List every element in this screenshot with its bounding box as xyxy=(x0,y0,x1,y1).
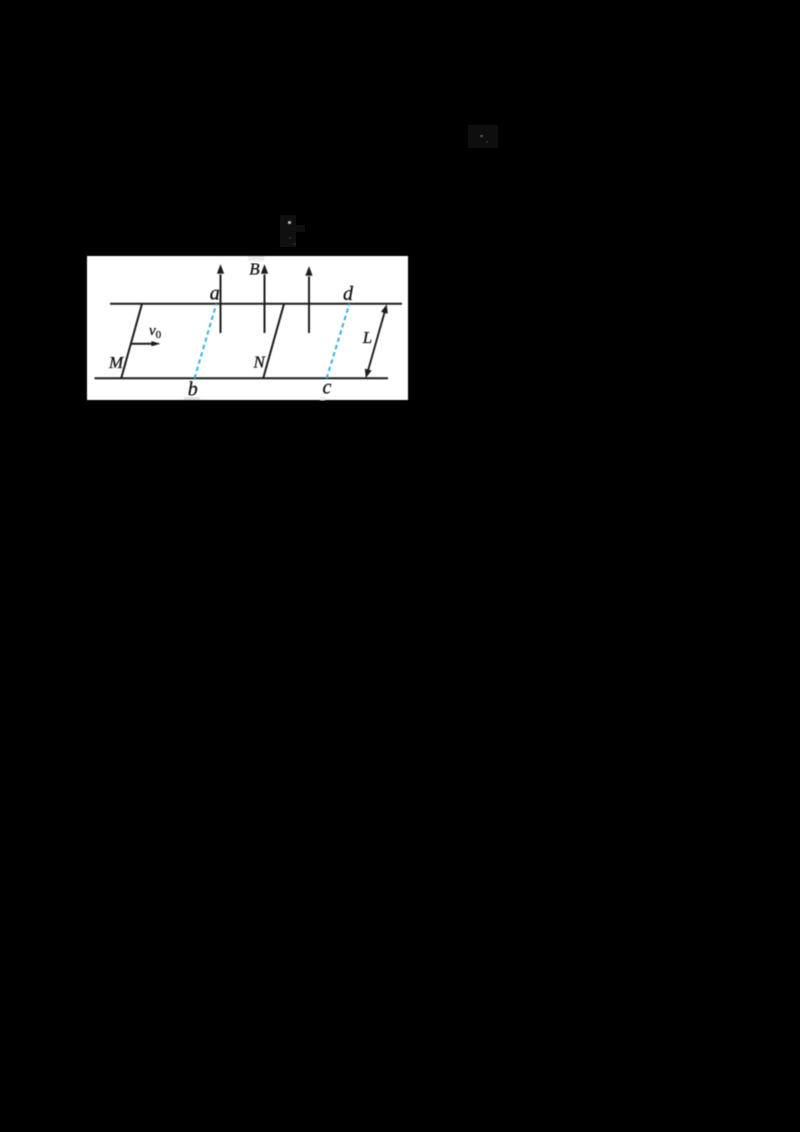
rod M xyxy=(121,303,142,378)
L dimension double arrow xyxy=(365,304,387,377)
dashed line c-d xyxy=(327,303,350,378)
svg-text:v0: v0 xyxy=(149,323,162,341)
svg-text:N: N xyxy=(253,352,267,371)
bottom rail xyxy=(95,377,389,379)
B field arrow 3 xyxy=(306,266,313,332)
svg-text:B: B xyxy=(249,259,260,278)
gray artifact above B label xyxy=(248,256,265,261)
svg-text:d: d xyxy=(343,283,354,305)
figure: sloped rails with rods M,N in magnetic field B xyxy=(87,256,408,401)
rod N xyxy=(263,303,284,378)
gray artifact below b label xyxy=(184,397,200,400)
B field arrow 2 xyxy=(261,264,268,332)
B field arrow 1 xyxy=(217,264,224,332)
svg-text:L: L xyxy=(362,328,372,347)
faint artifact block right area xyxy=(468,125,498,148)
svg-text:a: a xyxy=(210,282,220,304)
svg-text:c: c xyxy=(323,376,332,398)
dashed line a-b xyxy=(195,303,217,378)
svg-text:M: M xyxy=(108,353,124,372)
svg-text:b: b xyxy=(188,378,198,400)
top rail xyxy=(110,302,402,304)
gray artifact below c label xyxy=(320,397,325,401)
faint artifact block upper area xyxy=(280,215,296,247)
v0 velocity arrow xyxy=(131,341,159,346)
